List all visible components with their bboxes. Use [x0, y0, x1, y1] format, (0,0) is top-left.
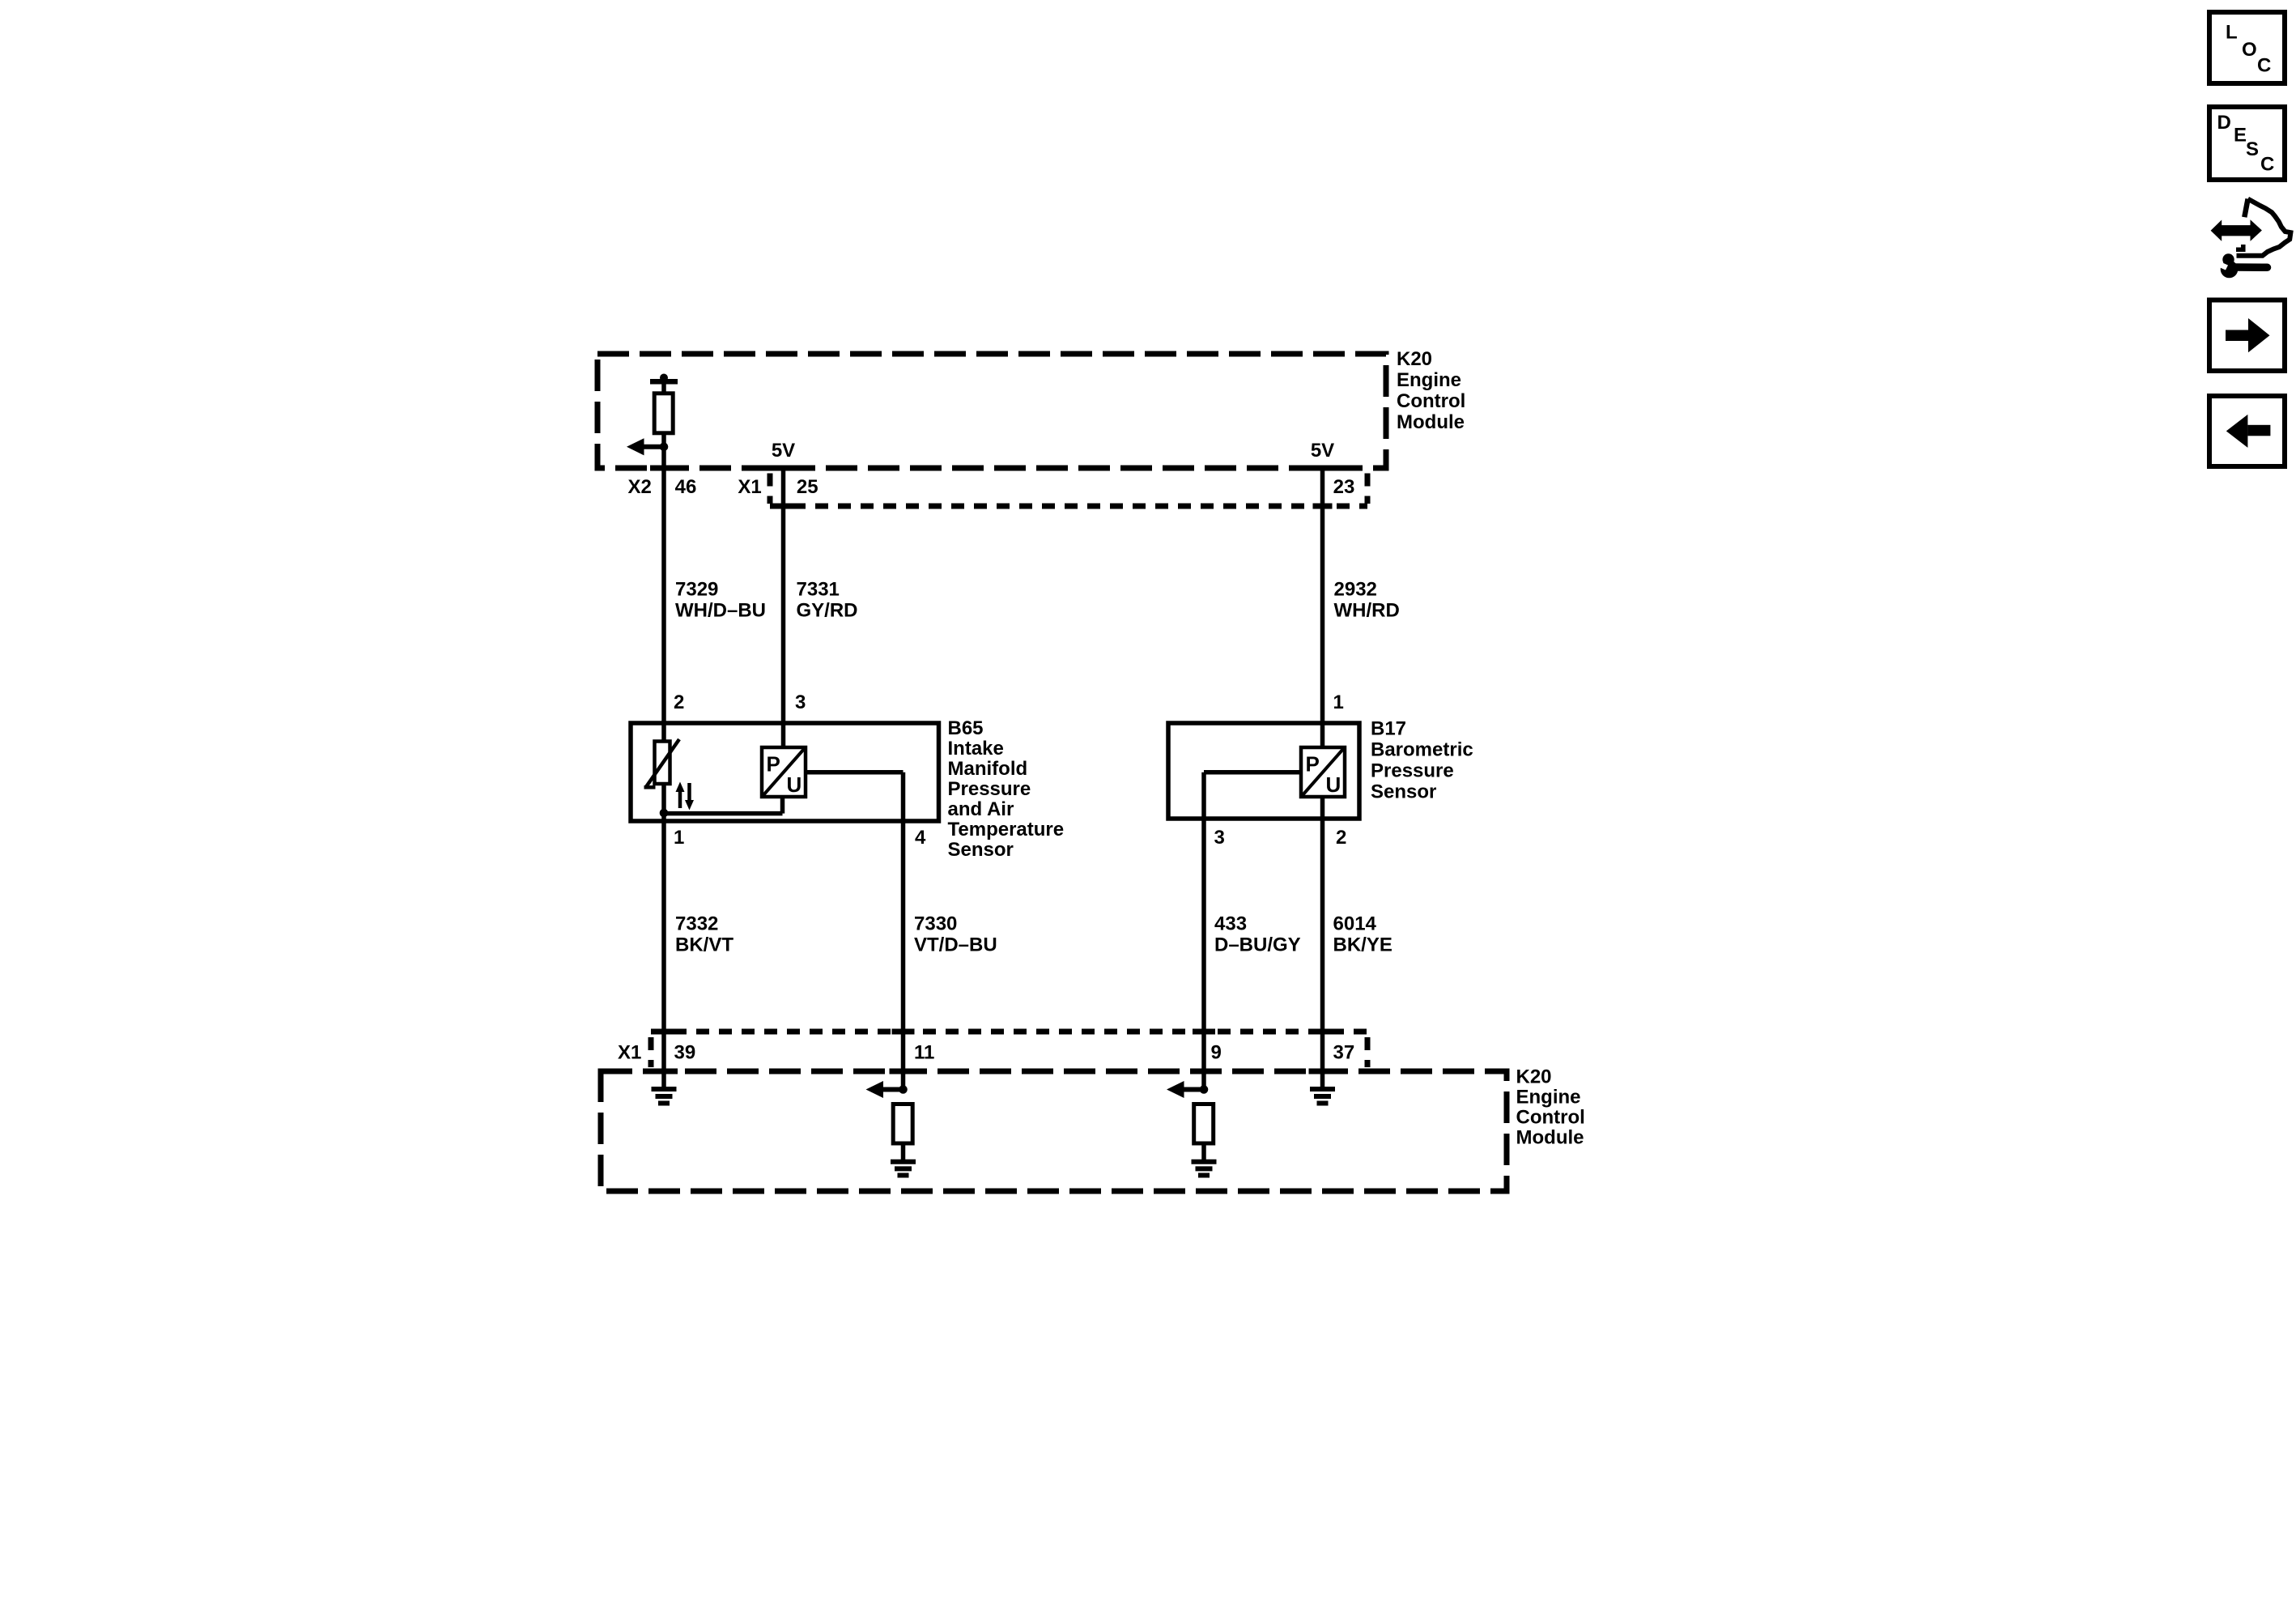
svg-text:Sensor: Sensor — [1371, 781, 1436, 803]
ticks where wires cross connector bottom — [774, 504, 793, 509]
svg-text:P: P — [1306, 752, 1320, 777]
svg-text:D: D — [2217, 112, 2231, 134]
signal arrow at pin 9 — [1167, 1081, 1204, 1098]
svg-text:U: U — [787, 772, 802, 797]
thermistor (air temperature sensing element) — [644, 739, 680, 788]
svg-text:2: 2 — [1336, 827, 1346, 849]
B65 label — [948, 717, 1065, 861]
svg-text:7332: 7332 — [675, 913, 718, 935]
wire label 7332 BK/VT — [675, 913, 733, 956]
svg-text:7331: 7331 — [797, 578, 840, 600]
wire: 5V X1-23 down to B17 P/U sensor — [1320, 468, 1325, 747]
K20 Engine Control Module (bottom) label — [1516, 1066, 1585, 1149]
connector X1 (bottom, dotted box) — [651, 1032, 1367, 1067]
K20 Engine Control Module (bottom) dashed box — [601, 1071, 1507, 1191]
svg-text:Temperature: Temperature — [948, 819, 1065, 840]
svg-text:Module: Module — [1397, 411, 1465, 433]
wire label 433 D-BU/GY — [1214, 913, 1301, 956]
svg-text:6014: 6014 — [1333, 913, 1377, 935]
svg-text:C: C — [2260, 154, 2274, 176]
signal arrow (to ECM logic) at X2-46 — [627, 438, 664, 455]
svg-text:D–BU/GY: D–BU/GY — [1214, 934, 1301, 956]
svg-text:K20: K20 — [1397, 348, 1432, 370]
svg-text:Pressure: Pressure — [948, 778, 1031, 800]
svg-text:Sensor: Sensor — [948, 839, 1014, 861]
ticks where wires cross bottom connector top — [653, 1029, 675, 1035]
svg-text:GY/RD: GY/RD — [797, 599, 858, 621]
svg-text:Control: Control — [1516, 1107, 1585, 1129]
pin numbers above sensors — [674, 691, 1344, 713]
node: junction dot pin 11 — [899, 1085, 908, 1094]
svg-text:433: 433 — [1214, 913, 1247, 935]
icon: DESC box — [2209, 107, 2285, 180]
svg-text:X1: X1 — [618, 1042, 641, 1064]
svg-text:Manifold: Manifold — [948, 758, 1028, 780]
P/U pressure transducer (B17) — [1301, 747, 1345, 797]
svg-text:23: 23 — [1333, 476, 1355, 498]
connector X1 (top, dotted box) — [770, 474, 1367, 507]
svg-text:U: U — [1326, 772, 1341, 797]
ticks where wires cross top ECM box edge — [650, 466, 678, 471]
wire: B65 pin 1 down to ground — [661, 784, 666, 1089]
wire label 7330 VT/D-BU — [914, 913, 997, 956]
wire: X2-46 resistor down to B65 thermistor — [661, 433, 666, 742]
wire: riser to P/U box — [780, 797, 785, 814]
signal arrow at pin 11 — [866, 1081, 904, 1098]
wire: X2-46 from terminal to resistor — [661, 381, 666, 394]
ground (pin 39) — [652, 1089, 677, 1104]
svg-text:X2: X2 — [628, 476, 652, 498]
svg-text:BK/VT: BK/VT — [675, 934, 733, 956]
B17 label — [1371, 718, 1473, 803]
svg-text:BK/YE: BK/YE — [1333, 934, 1392, 956]
svg-text:WH/D–BU: WH/D–BU — [675, 599, 766, 621]
node: junction dot on X2-46 wire — [660, 443, 669, 452]
resistor (ECM internal, pin 11) — [893, 1104, 912, 1144]
wire: B65 P/U output to pin 4 — [806, 770, 904, 775]
wire: thermistor bottom to P/U transducer common — [664, 811, 783, 816]
double-headed arrow — [2211, 219, 2262, 241]
ground (pin 11) — [891, 1162, 916, 1176]
svg-text:4: 4 — [915, 827, 926, 849]
connector outline body — [2237, 199, 2291, 256]
svg-text:Pressure: Pressure — [1371, 760, 1454, 782]
ground (pin 9) — [1192, 1162, 1217, 1176]
svg-text:46: 46 — [675, 476, 697, 498]
svg-text:2: 2 — [674, 691, 684, 713]
svg-text:E: E — [2234, 125, 2247, 147]
svg-text:9: 9 — [1211, 1042, 1222, 1064]
svg-text:1: 1 — [1333, 691, 1344, 713]
connector outline stub — [2244, 199, 2247, 218]
wire: B17 P/U output to pin 3 — [1204, 770, 1301, 775]
wire: resistor to ground (pin 9) — [1201, 1143, 1206, 1162]
K20 Engine Control Module (top) label — [1397, 348, 1465, 433]
P/U pressure transducer (B65) — [762, 747, 806, 797]
svg-text:C: C — [2257, 55, 2271, 77]
svg-text:P: P — [767, 752, 780, 777]
pin numbers below sensors — [674, 827, 1346, 849]
wire label 7331 GY/RD — [797, 578, 858, 621]
wire: B17 pin 2 down to ground — [1320, 797, 1325, 1089]
svg-text:3: 3 — [1214, 827, 1225, 849]
svg-text:39: 39 — [674, 1042, 696, 1064]
svg-text:X1: X1 — [738, 476, 761, 498]
svg-text:5V: 5V — [772, 440, 795, 462]
svg-text:K20: K20 — [1516, 1066, 1552, 1088]
wire label 6014 BK/YE — [1333, 913, 1392, 956]
pin labels bottom connector row — [618, 1042, 1354, 1064]
resistor (ECM internal pull-up) on X2-46 wire — [654, 394, 673, 433]
svg-text:VT/D–BU: VT/D–BU — [914, 934, 997, 956]
node: junction dot pin 9 — [1200, 1085, 1209, 1094]
node: junction dot at B65 pin 1 — [660, 809, 669, 818]
svg-text:Control: Control — [1397, 390, 1465, 412]
icon: LOC box — [2209, 12, 2285, 83]
wire: resistor to ground (pin 11) — [901, 1143, 906, 1162]
svg-text:25: 25 — [797, 476, 818, 498]
svg-text:WH/RD: WH/RD — [1334, 599, 1400, 621]
icon: previous (left arrow) box — [2209, 396, 2285, 466]
svg-text:3: 3 — [795, 691, 806, 713]
svg-text:Intake: Intake — [948, 738, 1004, 760]
svg-text:2932: 2932 — [1334, 578, 1377, 600]
variability arrows (up/down) — [676, 782, 695, 811]
pin labels top connector row — [628, 476, 1355, 498]
svg-text:Barometric: Barometric — [1371, 739, 1473, 761]
svg-text:Module: Module — [1516, 1127, 1584, 1149]
icon: next (right arrow) box — [2209, 300, 2285, 372]
svg-text:11: 11 — [914, 1042, 934, 1064]
wrench — [2221, 261, 2239, 279]
svg-text:L: L — [2226, 22, 2238, 44]
ground (pin 37) — [1310, 1089, 1335, 1104]
svg-text:S: S — [2246, 138, 2259, 160]
ticks where wires cross bottom ECM box edge — [650, 1069, 678, 1074]
svg-text:O: O — [2242, 39, 2257, 61]
svg-text:Engine: Engine — [1397, 369, 1461, 391]
B65 sensor box — [631, 723, 939, 821]
wire: 5V X1-25 down to B65 P/U sensor — [781, 468, 786, 747]
svg-text:37: 37 — [1333, 1042, 1355, 1064]
svg-text:1: 1 — [674, 827, 684, 849]
svg-text:B65: B65 — [948, 717, 984, 739]
svg-text:7329: 7329 — [675, 578, 718, 600]
svg-text:Engine: Engine — [1516, 1087, 1581, 1108]
wire label 2932 WH/RD — [1334, 578, 1400, 621]
K20 Engine Control Module (top) dashed box — [597, 354, 1386, 468]
icon: connector service (double arrow into connector + wrench) — [2211, 199, 2291, 279]
svg-text:7330: 7330 — [914, 913, 957, 935]
wire label 7329 WH/D-BU — [675, 578, 766, 621]
terminal bar on X2-46 wire — [650, 379, 678, 385]
B17 sensor box — [1168, 723, 1359, 819]
svg-text:B17: B17 — [1371, 718, 1406, 740]
node: 5V terminal dot on X2-46 wire — [660, 374, 668, 382]
svg-text:and Air: and Air — [948, 798, 1014, 820]
svg-text:5V: 5V — [1311, 440, 1334, 462]
resistor (ECM internal, pin 9) — [1194, 1104, 1214, 1144]
